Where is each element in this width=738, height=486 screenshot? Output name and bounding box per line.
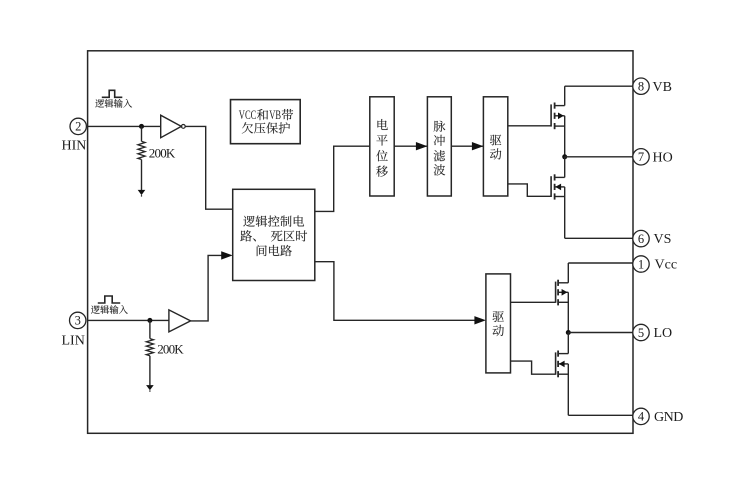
wire LO node to pin 5	[568, 332, 634, 334]
wire Q3 source down to LO node	[567, 292, 569, 332]
pin 5 (LO)	[633, 324, 649, 340]
text 逻辑控制电	[243, 215, 304, 226]
wire U1 output to logic box (top-left input)	[185, 126, 233, 209]
pin 4 (GND)	[633, 408, 649, 424]
svg-text:VS: VS	[654, 232, 672, 247]
wire R2 to ground	[149, 356, 151, 386]
GND wire to pin 4	[568, 414, 634, 416]
svg-text:3: 3	[75, 314, 81, 328]
pin 6 (VS)	[633, 230, 649, 246]
transistor Q3 (low-side upper MOSFET)	[556, 280, 569, 306]
wire logic box top-right output to level-shift input	[315, 146, 370, 211]
block: pulse filter box (脉冲滤波)	[427, 97, 451, 196]
svg-text:HO: HO	[653, 150, 673, 165]
wire Q1 source down to HO node	[564, 116, 566, 157]
svg-text:HIN: HIN	[62, 139, 87, 154]
text 电平位移 (vertical)	[377, 119, 387, 130]
text 脉冲滤波 (vertical)	[434, 121, 446, 132]
wire pin2 to inverter input	[88, 125, 161, 127]
svg-text:200K: 200K	[157, 342, 184, 357]
block: level shift box (电平位移)	[370, 97, 394, 196]
svg-text:VB: VB	[269, 108, 281, 122]
wire/arrow level shift to pulse filter	[394, 145, 427, 147]
IC boundary border	[88, 51, 633, 434]
node HO junction	[562, 154, 567, 159]
node: HIN wire / resistor junction	[139, 124, 144, 129]
op-amp style buffer: inverter U1 (HIN)	[161, 115, 182, 138]
transistor Q2 (high-side lower MOSFET)	[551, 174, 565, 199]
wire Q4 source down to GND	[567, 364, 569, 415]
svg-text:4: 4	[638, 410, 645, 424]
pin 8 (VB)	[633, 78, 649, 94]
label 逻辑输入 (HIN)	[95, 99, 132, 108]
svg-text:VB: VB	[653, 80, 672, 95]
svg-text:LIN: LIN	[62, 334, 85, 349]
text 间电路	[257, 245, 292, 256]
svg-text:Vcc: Vcc	[655, 258, 678, 273]
wire junction down to resistor R2	[149, 320, 151, 338]
transistor Q4 (low-side lower MOSFET)	[556, 351, 569, 378]
wire R1 to ground	[141, 160, 143, 191]
wire driver U5 to Q4 gate (stepped)	[511, 361, 556, 374]
pin 3 (LIN)	[70, 312, 86, 328]
label 逻辑输入 (LIN)	[91, 305, 128, 314]
svg-text:5: 5	[638, 326, 644, 340]
transistor Q1 (high-side upper MOSFET)	[551, 103, 565, 130]
buffer U2 (LIN, non-inverting)	[169, 310, 191, 332]
arrowhead into logic box lower input	[221, 251, 233, 259]
wire pin3 to buffer input	[88, 319, 169, 321]
resistor R2 200K (zigzag)	[146, 339, 153, 356]
wire LO node to Q4 drain	[567, 333, 569, 354]
block: VCC and VB undervoltage protection box	[231, 100, 301, 144]
node LO junction	[566, 330, 571, 335]
wire Q1 drain to VB rail	[564, 86, 566, 105]
pulse waveform icon (HIN logic input)	[102, 90, 123, 97]
block: high-side driver box U4 (驱动)	[483, 97, 507, 196]
wire/arrow pulse filter to high-side driver	[451, 145, 483, 147]
wire Q3 drain to Vcc rail	[567, 263, 569, 283]
wire HO node to pin 7	[565, 156, 634, 158]
svg-text:6: 6	[638, 232, 644, 246]
svg-text:GND: GND	[654, 410, 683, 425]
ground symbol (R2)	[146, 385, 154, 390]
text 驱动 (U5)	[493, 311, 504, 322]
block: low-side driver box U5 (驱动)	[486, 274, 511, 373]
arrowhead into low-side driver	[474, 316, 486, 324]
Vcc rail wire to pin 1	[568, 262, 634, 264]
wire HO node to Q2 drain	[564, 157, 566, 178]
pin 1 (Vcc)	[633, 256, 649, 272]
wire Q2 source down to VS	[564, 187, 566, 238]
wire U2 output to logic box (bottom-left input)	[191, 255, 223, 321]
svg-text:LO: LO	[654, 326, 673, 341]
svg-text:VCC: VCC	[239, 108, 256, 122]
svg-text:8: 8	[638, 80, 644, 94]
text 路、 死区时	[240, 230, 307, 241]
svg-text:7: 7	[638, 150, 644, 164]
text 驱动 (U4)	[490, 135, 501, 146]
svg-text:2: 2	[75, 120, 81, 134]
node: LIN wire / resistor junction	[147, 318, 152, 323]
wire driver U4 to Q1 gate	[508, 125, 551, 127]
svg-text:200K: 200K	[149, 146, 176, 161]
pin 7 (HO)	[633, 149, 649, 165]
wire junction down to resistor R1	[141, 126, 143, 141]
pulse waveform icon (LIN logic input)	[98, 296, 120, 303]
svg-text:1: 1	[638, 257, 644, 271]
VB rail wire to pin 8	[565, 85, 634, 87]
pin 2 (HIN)	[70, 118, 86, 134]
inverter U1 output bubble	[181, 125, 185, 129]
resistor R1 200K (zigzag)	[138, 141, 145, 159]
ground symbol (R1)	[138, 190, 146, 195]
wire driver U5 to Q3 gate	[511, 301, 556, 303]
block: logic control / dead-time circuit box U3	[233, 189, 315, 280]
wire driver U4 to Q2 gate (stepped)	[508, 184, 551, 196]
wire logic box bottom-right output to low-side driver	[315, 262, 476, 321]
text 欠压保护 (line 2)	[242, 122, 290, 133]
VS wire to pin 6	[565, 237, 634, 239]
